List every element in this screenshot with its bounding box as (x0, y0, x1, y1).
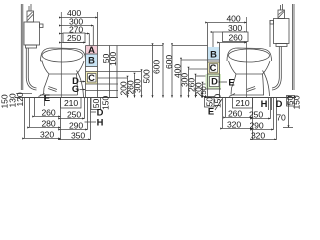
svg-text:100: 100 (108, 52, 118, 66)
svg-text:250: 250 (67, 110, 81, 120)
svg-text:H: H (261, 98, 268, 109)
svg-text:320: 320 (251, 131, 265, 141)
svg-text:260: 260 (228, 33, 242, 43)
svg-text:500: 500 (142, 69, 152, 83)
svg-text:350: 350 (71, 131, 85, 141)
svg-text:A: A (88, 44, 95, 55)
svg-text:150: 150 (199, 86, 208, 98)
svg-text:290: 290 (69, 121, 83, 131)
svg-text:C: C (88, 72, 95, 83)
svg-text:50: 50 (91, 99, 101, 109)
svg-text:C: C (210, 62, 217, 73)
svg-text:120: 120 (15, 92, 25, 106)
svg-text:150: 150 (101, 96, 111, 110)
svg-text:600: 600 (152, 60, 162, 74)
svg-text:D: D (276, 98, 283, 109)
svg-text:E: E (228, 77, 234, 88)
svg-text:320: 320 (40, 130, 54, 140)
svg-text:300: 300 (228, 23, 242, 33)
svg-text:B: B (210, 49, 217, 60)
svg-text:E: E (44, 92, 50, 103)
svg-text:G: G (72, 83, 79, 94)
svg-text:250: 250 (67, 33, 81, 43)
svg-text:B: B (88, 55, 95, 66)
svg-text:D: D (211, 76, 218, 87)
svg-text:210: 210 (235, 98, 249, 108)
svg-text:400: 400 (226, 14, 240, 24)
svg-text:290: 290 (249, 121, 263, 131)
svg-text:210: 210 (64, 98, 78, 108)
svg-text:150: 150 (292, 95, 301, 109)
svg-text:320: 320 (227, 120, 241, 130)
svg-text:250: 250 (249, 110, 263, 120)
svg-text:H: H (97, 117, 104, 128)
svg-text:280: 280 (41, 119, 55, 129)
svg-text:260: 260 (228, 109, 242, 119)
svg-text:70: 70 (276, 113, 286, 123)
svg-text:E: E (208, 106, 214, 117)
svg-text:260: 260 (41, 108, 55, 118)
